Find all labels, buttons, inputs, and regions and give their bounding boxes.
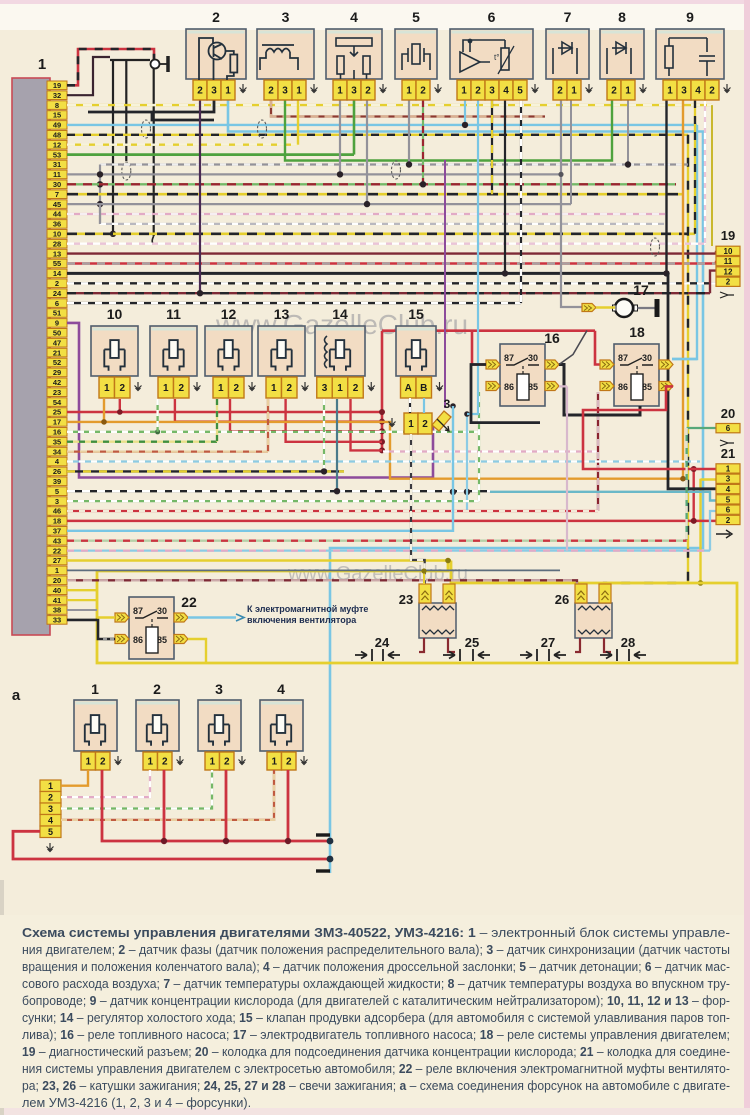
teal link row to conn21 p5 xyxy=(490,492,716,501)
svg-text:35: 35 xyxy=(53,437,61,446)
svg-text:К электромагнитной муфте: К электромагнитной муфте xyxy=(247,604,368,614)
hook crossing B xyxy=(142,120,151,138)
motor gray stub and bar xyxy=(638,307,657,309)
hook crossing D xyxy=(651,238,660,256)
gray bus vertical xyxy=(99,165,101,225)
wire pin8 row xyxy=(67,104,712,106)
wire pin31 row xyxy=(100,163,688,165)
svg-text:27: 27 xyxy=(541,635,555,650)
relay 16 terminal right xyxy=(545,382,559,391)
relay 18 body xyxy=(614,344,659,406)
wire pin16 green-dash xyxy=(67,431,479,433)
svg-text:3: 3 xyxy=(681,86,687,97)
wire pin8 drop xyxy=(711,105,713,246)
svg-text:26: 26 xyxy=(53,467,61,476)
block14 pin1 dark-cyan drop xyxy=(336,399,338,491)
sensor 5 symbol xyxy=(402,44,430,70)
relay22 85 yellow wire xyxy=(188,639,206,663)
coil 23 yellow feed p1 xyxy=(423,571,425,584)
svg-text:3: 3 xyxy=(282,86,288,97)
svg-text:2: 2 xyxy=(233,383,239,394)
sensor 6 pin strip xyxy=(457,80,527,100)
wire a brown xyxy=(61,770,274,820)
relay 18 terminal left xyxy=(600,360,614,369)
svg-text:21: 21 xyxy=(53,348,61,357)
connector 3 terminal xyxy=(432,411,451,431)
svg-text:26: 26 xyxy=(555,592,569,607)
sensor 7 pin strip xyxy=(553,80,581,100)
wire pin41 yellow xyxy=(67,599,97,601)
wire pin48 row xyxy=(67,134,688,136)
sensor 3 symbol xyxy=(260,45,298,70)
svg-text:4: 4 xyxy=(350,9,358,25)
relay22 left yellow stub xyxy=(97,616,115,618)
svg-text:50: 50 xyxy=(53,329,61,338)
svg-text:2: 2 xyxy=(55,279,59,288)
relay 18 terminal right xyxy=(659,360,673,369)
svg-text:11: 11 xyxy=(166,306,181,322)
svg-text:29: 29 xyxy=(53,368,61,377)
svg-text:20: 20 xyxy=(53,576,61,585)
wire pin3 green-white xyxy=(67,500,479,502)
svg-text:2: 2 xyxy=(153,681,161,697)
wire pin32 dark xyxy=(67,57,110,95)
relay 18 terminal right xyxy=(659,382,673,391)
svg-text:6: 6 xyxy=(726,506,731,515)
svg-text:5: 5 xyxy=(726,495,731,504)
coil 26 terminals xyxy=(575,584,587,603)
svg-text:23: 23 xyxy=(53,388,61,397)
orange vertical right xyxy=(682,100,684,479)
svg-text:16: 16 xyxy=(53,428,61,437)
coil23 yellow feed p2 xyxy=(448,583,451,590)
sensor block 3 xyxy=(257,29,314,79)
svg-text:2: 2 xyxy=(475,86,481,97)
svg-text:15: 15 xyxy=(408,306,424,322)
purple vertical mid xyxy=(444,160,446,408)
svg-text:28: 28 xyxy=(621,635,635,650)
wire pin19 red-black xyxy=(67,49,154,85)
relay16 30 black L xyxy=(559,365,640,416)
svg-text:5: 5 xyxy=(517,86,523,97)
svg-text:8: 8 xyxy=(618,9,626,25)
svg-text:6: 6 xyxy=(488,9,496,25)
sensor4 pin1 gray drop xyxy=(339,100,341,174)
svg-text:51: 51 xyxy=(53,309,61,318)
sensor 5 pin strip xyxy=(402,80,430,100)
svg-text:86: 86 xyxy=(618,382,628,392)
sensor 8 pin strip xyxy=(607,80,635,100)
svg-text:15: 15 xyxy=(53,111,61,120)
svg-text:3: 3 xyxy=(211,86,217,97)
svg-text:22: 22 xyxy=(53,546,61,555)
block 12 pin strip xyxy=(213,377,244,398)
wire pin45 row xyxy=(67,203,571,205)
wire pin33 black xyxy=(67,620,115,639)
injector block 12 xyxy=(205,326,252,376)
svg-text:3: 3 xyxy=(489,86,495,97)
connector 21 arrow xyxy=(716,530,732,538)
svg-text:4: 4 xyxy=(726,485,731,494)
wire a green xyxy=(61,770,212,809)
svg-text:4: 4 xyxy=(277,681,285,697)
svg-text:1: 1 xyxy=(408,419,414,430)
svg-text:10: 10 xyxy=(724,247,733,256)
wire pin12 row xyxy=(67,143,298,145)
hook crossing A xyxy=(122,162,131,180)
wire pin55 row xyxy=(67,262,716,264)
injector a1 pins xyxy=(81,752,96,770)
injector block 13 xyxy=(258,326,305,376)
svg-text:3: 3 xyxy=(351,86,357,97)
block 14 coil xyxy=(325,336,328,368)
injector a4 xyxy=(260,700,303,751)
relay16 85 pink drop xyxy=(559,386,567,550)
svg-text:13: 13 xyxy=(53,249,61,258)
svg-text:8: 8 xyxy=(55,101,59,110)
svg-text:2: 2 xyxy=(224,757,230,768)
wire pin26 black-yellow xyxy=(67,470,344,472)
svg-text:2: 2 xyxy=(286,383,292,394)
sensor block 2 xyxy=(186,29,246,79)
sensor6 pin4 drop xyxy=(504,100,506,273)
pin28 wire tail xyxy=(152,236,154,244)
svg-text:17: 17 xyxy=(53,418,61,427)
svg-text:1: 1 xyxy=(85,757,91,768)
relay 16 terminal left xyxy=(486,382,500,391)
svg-text:25: 25 xyxy=(53,408,61,417)
svg-text:2: 2 xyxy=(178,383,184,394)
svg-text:27: 27 xyxy=(53,556,61,565)
block 15 pin strip xyxy=(401,377,432,398)
sensor block 7 xyxy=(546,29,589,79)
block 14 pin strip xyxy=(317,377,364,398)
svg-text:47: 47 xyxy=(53,338,61,347)
wire pin30 row xyxy=(67,183,676,185)
wire pin55 jog xyxy=(715,261,717,264)
wire pin7 row xyxy=(67,193,684,196)
svg-text:86: 86 xyxy=(504,382,514,392)
svg-text:40: 40 xyxy=(53,586,61,595)
sensor 4 symbol xyxy=(336,38,372,79)
svg-text:6: 6 xyxy=(726,424,731,433)
svg-text:14: 14 xyxy=(53,269,62,278)
svg-text:4: 4 xyxy=(48,816,53,826)
block 11 pin strip xyxy=(158,377,189,398)
block 15 symbol xyxy=(406,340,426,371)
relay18 30 cyan xyxy=(672,358,697,360)
svg-text:23: 23 xyxy=(399,592,413,607)
svg-text:9: 9 xyxy=(686,9,694,25)
wire pin6 row xyxy=(67,302,521,304)
svg-text:52: 52 xyxy=(53,358,61,367)
relay22 86 black dashes xyxy=(103,638,115,640)
wire sensor3 pin1 xyxy=(297,100,299,145)
svg-text:1: 1 xyxy=(667,86,673,97)
sensor block 6 xyxy=(450,29,533,79)
svg-text:16: 16 xyxy=(544,330,560,346)
svg-text:30: 30 xyxy=(528,353,538,363)
svg-text:10: 10 xyxy=(53,230,61,239)
block 10 pin strip xyxy=(99,377,130,398)
svg-text:38: 38 xyxy=(53,606,61,615)
svg-text:2: 2 xyxy=(162,757,168,768)
svg-text:30: 30 xyxy=(642,353,652,363)
relay22 30 cyan wire xyxy=(188,616,236,618)
svg-text:9: 9 xyxy=(55,319,59,328)
svg-text:54: 54 xyxy=(53,398,62,407)
svg-text:2: 2 xyxy=(726,516,731,525)
svg-text:24: 24 xyxy=(53,289,62,298)
connector below 15 xyxy=(404,413,418,434)
relay 16 body xyxy=(500,344,545,406)
wire pin22 cyan-pink xyxy=(67,549,710,551)
hook crossing C xyxy=(392,161,401,179)
sensor7 pin1 gray drop xyxy=(570,100,572,204)
svg-text:2: 2 xyxy=(611,86,617,97)
svg-text:3: 3 xyxy=(48,804,53,814)
wire sensor3 pin2 brown-dash xyxy=(271,100,545,117)
connector a pins xyxy=(40,780,61,792)
wire pin44 row xyxy=(67,213,668,215)
svg-text:5: 5 xyxy=(55,487,59,496)
wire 15B cyan xyxy=(423,398,425,413)
block 12 symbol xyxy=(218,340,238,371)
sensor9 pin2 pink drop xyxy=(704,100,706,244)
svg-text:1: 1 xyxy=(461,86,467,97)
svg-text:1: 1 xyxy=(55,566,59,575)
svg-text:3: 3 xyxy=(215,681,223,697)
svg-text:18: 18 xyxy=(53,517,61,526)
relay 16 terminal left xyxy=(486,360,500,369)
block14 pin3 green drop xyxy=(323,399,325,471)
sensor5 pin2 green drop xyxy=(422,100,424,184)
svg-text:1: 1 xyxy=(296,86,302,97)
wire pin46 red-black xyxy=(67,510,598,512)
injector a4 pins xyxy=(267,752,282,770)
svg-text:1: 1 xyxy=(48,781,53,791)
wire pin35 yellow-green xyxy=(67,441,217,443)
wire pin9 purple loop xyxy=(67,323,433,478)
svg-text:25: 25 xyxy=(465,635,479,650)
wire pin37 cyan xyxy=(67,406,453,531)
motor yellow link xyxy=(596,306,615,309)
injector a4 symbol xyxy=(271,715,291,746)
block 11 symbol xyxy=(163,340,183,371)
svg-text:2: 2 xyxy=(100,757,106,768)
svg-text:12: 12 xyxy=(724,267,733,276)
svg-text:34: 34 xyxy=(53,447,62,456)
sensor 9 symbol xyxy=(665,38,715,76)
battery node xyxy=(329,833,332,873)
svg-text:12: 12 xyxy=(221,306,237,322)
wire green sensor3 pin3 to sensor8 xyxy=(285,100,612,161)
wire pin10 row xyxy=(67,233,695,236)
sensor 3 pin strip xyxy=(264,80,306,100)
relay 18 terminal left xyxy=(600,382,614,391)
svg-text:1: 1 xyxy=(625,86,631,97)
svg-text:39: 39 xyxy=(53,477,61,486)
sensor block 4 xyxy=(326,29,382,79)
sensor 8 symbol xyxy=(607,42,631,74)
svg-text:1: 1 xyxy=(147,757,153,768)
svg-text:22: 22 xyxy=(181,594,197,610)
sensor 7 symbol xyxy=(553,42,577,74)
injector a1 symbol xyxy=(85,715,105,746)
wire 15A dash xyxy=(409,398,411,413)
wire pin14 row xyxy=(67,272,668,275)
sensor4 pin2 gray drop xyxy=(366,100,368,204)
red steps from injectors xyxy=(119,399,121,412)
block 10 symbol xyxy=(104,340,124,371)
svg-text:18: 18 xyxy=(629,324,645,340)
sensor 2 symbol xyxy=(199,38,237,80)
injector block 14 xyxy=(315,326,365,376)
svg-text:45: 45 xyxy=(53,200,61,209)
svg-text:87: 87 xyxy=(133,606,143,616)
wire cyan from sensor2 pin1 long loop xyxy=(228,100,703,833)
svg-text:1: 1 xyxy=(571,86,577,97)
relay 22 terminal right xyxy=(174,635,188,644)
wire a pink xyxy=(61,770,150,797)
injector a3 symbol xyxy=(209,715,229,746)
svg-text:www.GazelleClub.ru: www.GazelleClub.ru xyxy=(287,563,468,585)
injector a3 xyxy=(198,700,241,751)
injector a1 xyxy=(74,700,117,751)
wire pin4 cyan-white xyxy=(67,460,700,462)
svg-text:1: 1 xyxy=(218,383,224,394)
wire pin49 row xyxy=(67,124,697,126)
svg-text:1: 1 xyxy=(225,86,231,97)
sensor5 pin1 gray drop xyxy=(408,100,410,165)
spark wires 23 xyxy=(419,638,424,652)
svg-text:2: 2 xyxy=(726,278,731,287)
svg-text:7: 7 xyxy=(55,190,59,199)
wire a orange xyxy=(61,770,88,786)
connector 20 fork xyxy=(720,440,734,446)
injector block 15 xyxy=(396,326,436,376)
hook crossing E xyxy=(258,120,267,138)
svg-text:включения вентилятора: включения вентилятора xyxy=(247,615,357,625)
sensor9 pin4 drop to row10 xyxy=(694,100,696,234)
svg-text:6: 6 xyxy=(55,299,59,308)
svg-text:1: 1 xyxy=(38,56,46,73)
svg-text:19: 19 xyxy=(53,81,61,90)
relay 22 terminal left xyxy=(115,635,129,644)
svg-text:87: 87 xyxy=(504,353,514,363)
ignition coil 26 xyxy=(575,603,612,638)
svg-text:1: 1 xyxy=(337,383,343,394)
sensor 2 pin strip xyxy=(193,80,235,100)
wire pin27 yellow loop xyxy=(67,559,451,562)
svg-text:4: 4 xyxy=(695,86,701,97)
svg-text:5: 5 xyxy=(48,827,53,837)
svg-text:A: A xyxy=(405,383,412,394)
sensor block 9 xyxy=(656,29,724,79)
black feed lines from junction xyxy=(110,59,150,61)
wire pin2 row xyxy=(67,282,716,284)
svg-text:3: 3 xyxy=(444,397,451,411)
wire pin5 black-white xyxy=(67,490,490,492)
block 13 pin strip xyxy=(266,377,297,398)
sensor7 pin2 gray drop to motor xyxy=(561,100,582,307)
svg-text:32: 32 xyxy=(53,91,61,100)
wire pink to relay18-86 xyxy=(383,450,598,452)
wire pin13 jog into conn19 xyxy=(715,251,717,254)
svg-text:1: 1 xyxy=(271,383,277,394)
wire sensor4 pin3 xyxy=(353,100,356,155)
svg-text:4: 4 xyxy=(503,86,509,97)
svg-text:2: 2 xyxy=(286,757,292,768)
svg-text:2: 2 xyxy=(557,86,563,97)
svg-text:86: 86 xyxy=(133,635,143,645)
ignition coil 23 xyxy=(419,603,456,638)
svg-text:2: 2 xyxy=(48,793,53,803)
wire pin49 drop to relay18 xyxy=(672,125,697,359)
svg-text:28: 28 xyxy=(53,239,61,248)
svg-text:20: 20 xyxy=(721,406,735,421)
sensor block 5 xyxy=(395,29,437,79)
svg-text:2: 2 xyxy=(353,383,359,394)
svg-text:1: 1 xyxy=(163,383,169,394)
wire pin38 gray xyxy=(67,609,97,611)
wire pin15 black from sensor2 xyxy=(88,100,214,112)
svg-text:B: B xyxy=(420,383,427,394)
svg-text:43: 43 xyxy=(53,536,61,545)
wire pin11 row xyxy=(67,173,561,175)
relay16 diag wire xyxy=(559,331,587,365)
wire subconn p1 dash down to coil23 xyxy=(411,434,425,585)
svg-text:2: 2 xyxy=(268,86,274,97)
svg-text:2: 2 xyxy=(197,86,203,97)
svg-text:30: 30 xyxy=(53,180,61,189)
svg-text:3: 3 xyxy=(726,475,731,484)
svg-text:42: 42 xyxy=(53,378,61,387)
injector a3 pins xyxy=(205,752,220,770)
relay 22 terminal left xyxy=(115,613,129,622)
wire pin1 slate xyxy=(67,569,560,571)
sensor block 8 xyxy=(600,29,644,79)
svg-text:24: 24 xyxy=(375,635,390,650)
relay 16 terminal right xyxy=(545,360,559,369)
injector block 11 xyxy=(150,326,197,376)
svg-text:31: 31 xyxy=(53,160,61,169)
yellow loop right part xyxy=(97,561,737,664)
svg-text:1: 1 xyxy=(271,757,277,768)
svg-text:37: 37 xyxy=(53,527,61,536)
svg-text:2: 2 xyxy=(420,86,426,97)
svg-text:2: 2 xyxy=(212,9,220,25)
svg-text:5: 5 xyxy=(412,9,420,25)
svg-text:3: 3 xyxy=(282,9,290,25)
junction circle ignition xyxy=(151,60,160,69)
svg-text:1: 1 xyxy=(406,86,412,97)
sensor 9 pin strip xyxy=(663,80,719,100)
svg-text:30: 30 xyxy=(157,606,167,616)
red wire relay18-85 to conn21 p1 xyxy=(583,386,716,469)
svg-text:48: 48 xyxy=(53,131,61,140)
svg-text:1: 1 xyxy=(104,383,110,394)
block 14 symbol xyxy=(330,340,350,371)
svg-text:7: 7 xyxy=(564,9,572,25)
svg-text:12: 12 xyxy=(53,140,61,149)
svg-text:87: 87 xyxy=(618,353,628,363)
svg-text:21: 21 xyxy=(721,446,735,461)
svg-text:49: 49 xyxy=(53,121,61,130)
wire pin53 row xyxy=(67,153,354,156)
wire pin48 drop to coil26 xyxy=(604,135,688,590)
cyan stub to row5 xyxy=(466,414,468,511)
